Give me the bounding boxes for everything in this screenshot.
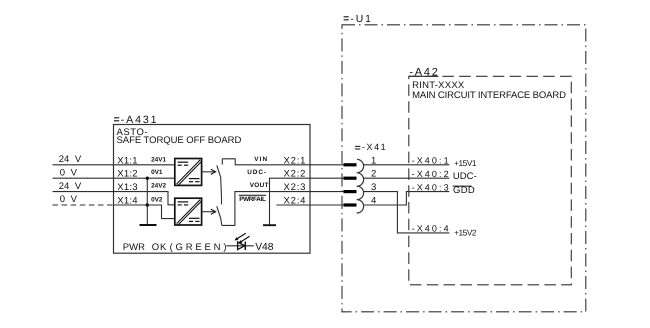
svg-text:VIN: VIN — [254, 156, 268, 163]
switch S1 contact — [217, 159, 223, 198]
svg-text:X1:2: X1:2 — [117, 169, 138, 180]
svg-text:X1:3: X1:3 — [117, 182, 138, 193]
svg-text:-X41: -X41 — [362, 142, 387, 152]
svg-text:PWR: PWR — [123, 242, 145, 253]
svg-text:OK: OK — [152, 242, 168, 253]
svg-text:UDC-: UDC- — [453, 171, 477, 182]
enclosure U1 (dash-dot) — [342, 25, 586, 312]
svg-text:+15V1: +15V1 — [454, 158, 477, 168]
svg-text:SAFE TORQUE OFF BOARD: SAFE TORQUE OFF BOARD — [117, 135, 242, 146]
wire 0V rail vertical — [146, 178, 148, 225]
svg-text:0V1: 0V1 — [151, 169, 163, 176]
overline GDD — [453, 185, 472, 187]
label =-U1 — [344, 14, 373, 25]
svg-text:X2:2: X2:2 — [284, 169, 307, 180]
wire 24V supply 1 to X1:1 and DC/DC U1 input — [53, 164, 175, 166]
svg-text:X1:1: X1:1 — [117, 155, 138, 166]
connector X41 pin 3 — [344, 186, 364, 199]
wire PWRFAIL to X2:4 — [276, 204, 343, 206]
svg-text:0V2: 0V2 — [151, 196, 163, 203]
svg-text:X2:3: X2:3 — [284, 182, 307, 193]
wire 0V supply 1 to X1:2 and DC/DC U1 input — [53, 177, 175, 179]
wire 24V supply 2 to X1:3 — [53, 192, 175, 205]
connector X41 pin 1 — [344, 159, 364, 172]
wire VIN from switch S1 to X2:1 — [222, 159, 343, 165]
connector X41 pin 4 — [344, 200, 364, 213]
svg-text:X2:1: X2:1 — [284, 155, 307, 166]
wire pin1 to X40:1 — [363, 164, 449, 166]
wire pin3 to X40:4 — [363, 192, 449, 233]
LED V48 — [226, 233, 254, 250]
DC/DC converter block 2 — [175, 198, 202, 225]
svg-text:+15V2: +15V2 — [454, 228, 477, 238]
svg-text:-U1: -U1 — [350, 14, 372, 25]
wire 0V supply 2 internal to DC/DC U2 input — [114, 205, 175, 219]
svg-text:-A42: -A42 — [409, 67, 439, 79]
svg-text:(GREEN): (GREEN) — [170, 242, 230, 253]
wire pin4 to X40:3 — [363, 192, 449, 205]
svg-text:-X40:2: -X40:2 — [412, 169, 451, 179]
svg-text:V48: V48 — [255, 242, 274, 253]
svg-text:-X40:1: -X40:1 — [412, 156, 451, 166]
switch S2 contact — [217, 198, 222, 226]
board A42 outline (dashed) — [409, 76, 572, 284]
wire UDC- to X2:2 — [270, 178, 344, 225]
connector X41 pin 2 — [344, 173, 364, 186]
svg-text:24V2: 24V2 — [151, 182, 166, 189]
board A42 top edge first dash (solid under label) — [409, 75, 439, 77]
svg-text:UDC-: UDC- — [247, 169, 267, 176]
overline PWRFAIL — [239, 194, 266, 196]
svg-text:MAIN CIRCUIT INTERFACE BOARD: MAIN CIRCUIT INTERFACE BOARD — [412, 90, 566, 101]
actuation arrow from converter 1 to switch S1 — [202, 169, 216, 174]
wire VOUT from switch S2 bottom to X2:3 — [222, 192, 344, 226]
wire 0V supply 2 external (dashed) — [53, 204, 114, 206]
svg-text:24 V: 24 V — [59, 154, 82, 165]
label =-A431 — [114, 114, 158, 126]
svg-text:X1:4: X1:4 — [117, 196, 138, 207]
svg-text:-A431: -A431 — [121, 114, 159, 126]
DC/DC converter block 1 — [175, 159, 202, 186]
svg-text:-X40:3: -X40:3 — [412, 182, 451, 192]
connector =-X41 label — [355, 142, 387, 152]
ground bar left — [140, 224, 157, 226]
svg-text:0 V: 0 V — [60, 194, 78, 205]
svg-text:0 V: 0 V — [60, 167, 78, 178]
wire pin2 to X40:2 — [363, 177, 449, 179]
board A431 outline — [114, 125, 311, 254]
svg-text:-X40:4: -X40:4 — [412, 224, 451, 234]
junction dot 0V1 — [146, 177, 149, 180]
junction dot 0V2 — [146, 203, 149, 206]
svg-text:VOUT: VOUT — [250, 182, 269, 189]
svg-text:PWRFAIL: PWRFAIL — [239, 196, 266, 203]
svg-text:GDD: GDD — [453, 185, 475, 196]
svg-text:24 V: 24 V — [59, 181, 82, 192]
svg-text:24V1: 24V1 — [151, 157, 166, 164]
ground bar UDC- — [263, 224, 276, 226]
svg-text:X2:4: X2:4 — [284, 196, 307, 207]
actuation arrow from converter 2 to switch S2 — [202, 209, 216, 214]
